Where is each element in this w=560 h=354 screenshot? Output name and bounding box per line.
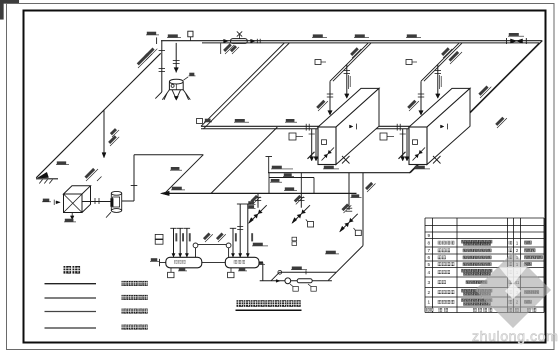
legend line 3 bbox=[45, 311, 97, 313]
svg-text:zhulong.com: zhulong.com bbox=[472, 329, 559, 345]
air vent stub on H3 bbox=[268, 157, 270, 173]
small tag boxes near drain group2 bbox=[292, 237, 297, 241]
chiller A nozzle tag bbox=[289, 133, 296, 140]
pipe H2 middle main (double) bbox=[201, 125, 457, 127]
chiller A inlet pipes bbox=[311, 129, 313, 161]
drain hose group bbox=[257, 193, 259, 207]
pipe treater to V134 bbox=[122, 200, 134, 202]
corner frame mark bbox=[0, 0, 19, 20]
pipe bypass upper bbox=[279, 271, 336, 273]
chiller B drop V1 bbox=[420, 81, 422, 114]
funnel tag bbox=[184, 77, 189, 80]
gauge stubs on vessels bbox=[195, 248, 197, 257]
pump on H1 bbox=[231, 39, 248, 44]
tank drain arrow bbox=[71, 212, 73, 218]
valve near right end of H1 bbox=[506, 38, 508, 44]
expansion tank cube bbox=[64, 194, 83, 213]
svg-text:6: 6 bbox=[427, 255, 430, 260]
chiller A tag box bbox=[315, 60, 321, 65]
chiller B nozzle tag bbox=[380, 133, 387, 140]
header vessel V2 bbox=[225, 257, 259, 268]
pipe H154 expansion line bbox=[134, 154, 203, 156]
vent U-frame over header bbox=[269, 177, 314, 179]
wire right main riser diagonal (double) bbox=[410, 41, 542, 173]
riser pipe bbox=[179, 228, 181, 257]
drain hose group bbox=[300, 193, 302, 207]
legend labels bbox=[122, 281, 127, 286]
pipe H194 drain header bbox=[165, 192, 357, 194]
header axis line bbox=[160, 262, 263, 264]
wire jog D_h H154 to H194 bbox=[165, 155, 204, 194]
svg-text:3: 3 bbox=[427, 280, 430, 285]
watermark diamond logo bbox=[475, 252, 551, 328]
chiller A body box bbox=[318, 88, 379, 127]
drain group on bypass drop bbox=[348, 173, 350, 210]
svg-text:8: 8 bbox=[427, 240, 430, 245]
riser pipe bbox=[232, 228, 234, 257]
expansion pipe label bbox=[83, 166, 98, 181]
wire V104 drain bbox=[103, 110, 105, 158]
wire bypass diagonal bbox=[328, 246, 363, 281]
svg-text:7: 7 bbox=[427, 248, 430, 253]
svg-text:5: 5 bbox=[427, 262, 430, 267]
wire vessel2 to bypass bbox=[262, 263, 264, 281]
chiller A supply diagonals bbox=[330, 43, 368, 81]
labels on right diagonal bbox=[447, 49, 462, 64]
svg-text:2: 2 bbox=[427, 290, 430, 295]
chiller A break mark bbox=[342, 156, 350, 164]
pipe H3 lower chiller drain main bbox=[268, 172, 410, 174]
wire V176 from H1 to cooling tower bbox=[175, 43, 177, 73]
wire D1 diagonal H1 to H2 (double) bbox=[201, 43, 284, 126]
pipe tank to treater bbox=[82, 201, 112, 203]
water treater cylinder bbox=[111, 191, 121, 195]
chiller B break mark bbox=[433, 156, 441, 164]
svg-text:4: 4 bbox=[427, 270, 430, 275]
riser pipe bbox=[186, 228, 188, 257]
pipe H1 top condenser main (double) bbox=[161, 40, 542, 42]
drain outfall symbol bbox=[38, 172, 49, 178]
wire diag2 header to H2 bbox=[211, 127, 277, 193]
chiller A drain valve bbox=[322, 148, 335, 161]
wire bypass drop V363 bbox=[362, 173, 364, 246]
pipe bypass lower with pump bbox=[260, 280, 332, 282]
svg-text:9: 9 bbox=[427, 233, 430, 238]
funnel legs bbox=[162, 90, 169, 100]
labels above H2 bbox=[235, 119, 245, 122]
chiller B drain valve bbox=[413, 148, 426, 161]
table header row bbox=[426, 308, 429, 311]
pipe long left drain diagonal DN150 bbox=[36, 53, 161, 178]
legend line 4 bbox=[45, 327, 97, 329]
chiller A drop V1 bbox=[329, 81, 331, 114]
legend line 2 bbox=[45, 297, 97, 299]
labels above H1 bbox=[168, 34, 178, 37]
drawing title bbox=[237, 300, 244, 307]
svg-text:1: 1 bbox=[427, 300, 430, 305]
flexible joint bbox=[297, 279, 312, 283]
chiller B inlet pipes bbox=[402, 129, 404, 161]
check valve circle bbox=[285, 278, 291, 284]
flow arrow on H194 bbox=[161, 191, 170, 195]
chiller B drop V2 bbox=[437, 65, 439, 98]
riser pipe bbox=[173, 228, 175, 257]
tall riser pair over vessel V2 bbox=[239, 204, 241, 257]
wire riser V134 bbox=[133, 155, 135, 201]
header vessel V1 bbox=[166, 257, 202, 268]
chiller B tag box bbox=[406, 60, 412, 65]
vessel drains bbox=[170, 268, 172, 273]
auto vent box on H1 bbox=[188, 31, 193, 37]
tags left of header bbox=[155, 234, 163, 239]
H1 left end cap bbox=[156, 37, 158, 44]
legend line 1 bbox=[45, 283, 97, 285]
chiller A drop V2 bbox=[346, 65, 348, 98]
chiller B supply diagonals bbox=[421, 43, 459, 81]
wire V162 riser to funnel area bbox=[161, 41, 163, 92]
chiller B body box bbox=[409, 88, 470, 127]
legend title bbox=[64, 266, 72, 274]
equipment table grid bbox=[425, 218, 544, 313]
cooling tower collector funnel bbox=[169, 79, 183, 84]
